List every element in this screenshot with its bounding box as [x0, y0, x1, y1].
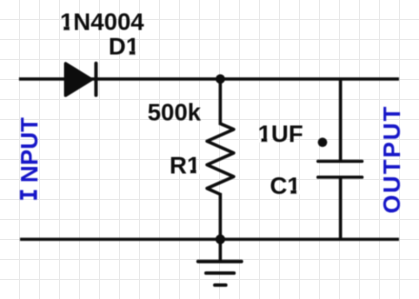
wire capacitor bottom lead [339, 177, 342, 239]
capacitor C1 plates [318, 161, 362, 177]
resistor R1 zigzag body [207, 124, 234, 195]
ground symbol [198, 239, 242, 285]
wire capacitor top lead [339, 79, 342, 161]
wire top rail (input node to output node) [19, 77, 399, 80]
svg-text:500k: 500k [148, 99, 202, 126]
svg-text:R1: R1 [170, 152, 201, 179]
wire resistor bottom lead [219, 193, 222, 239]
svg-text:1N4004: 1N4004 [60, 9, 145, 36]
diode D1 (anode left, cathode right) [66, 63, 96, 95]
svg-text:1UF: 1UF [258, 121, 303, 148]
wire resistor top lead [219, 79, 222, 125]
svg-text:D1: D1 [109, 34, 140, 61]
wire bottom rail (ground return) [20, 238, 399, 241]
glyph patches: remove Liberation "1" base serifs (target uses serif-less 1) [61, 27, 300, 195]
node INPUT label I-glyph crossbars [21, 190, 37, 200]
svg-text:OUTPUT: OUTPUT [379, 105, 406, 214]
capacitor C1 polarity dot (positive plate marker) [318, 138, 327, 147]
svg-text:NPUT: NPUT [16, 117, 43, 183]
svg-text:C1: C1 [270, 173, 301, 200]
node junction: resistor top lead meets top rail [216, 74, 225, 83]
node junction: resistor bottom lead meets bottom rail / ground [215, 234, 225, 244]
